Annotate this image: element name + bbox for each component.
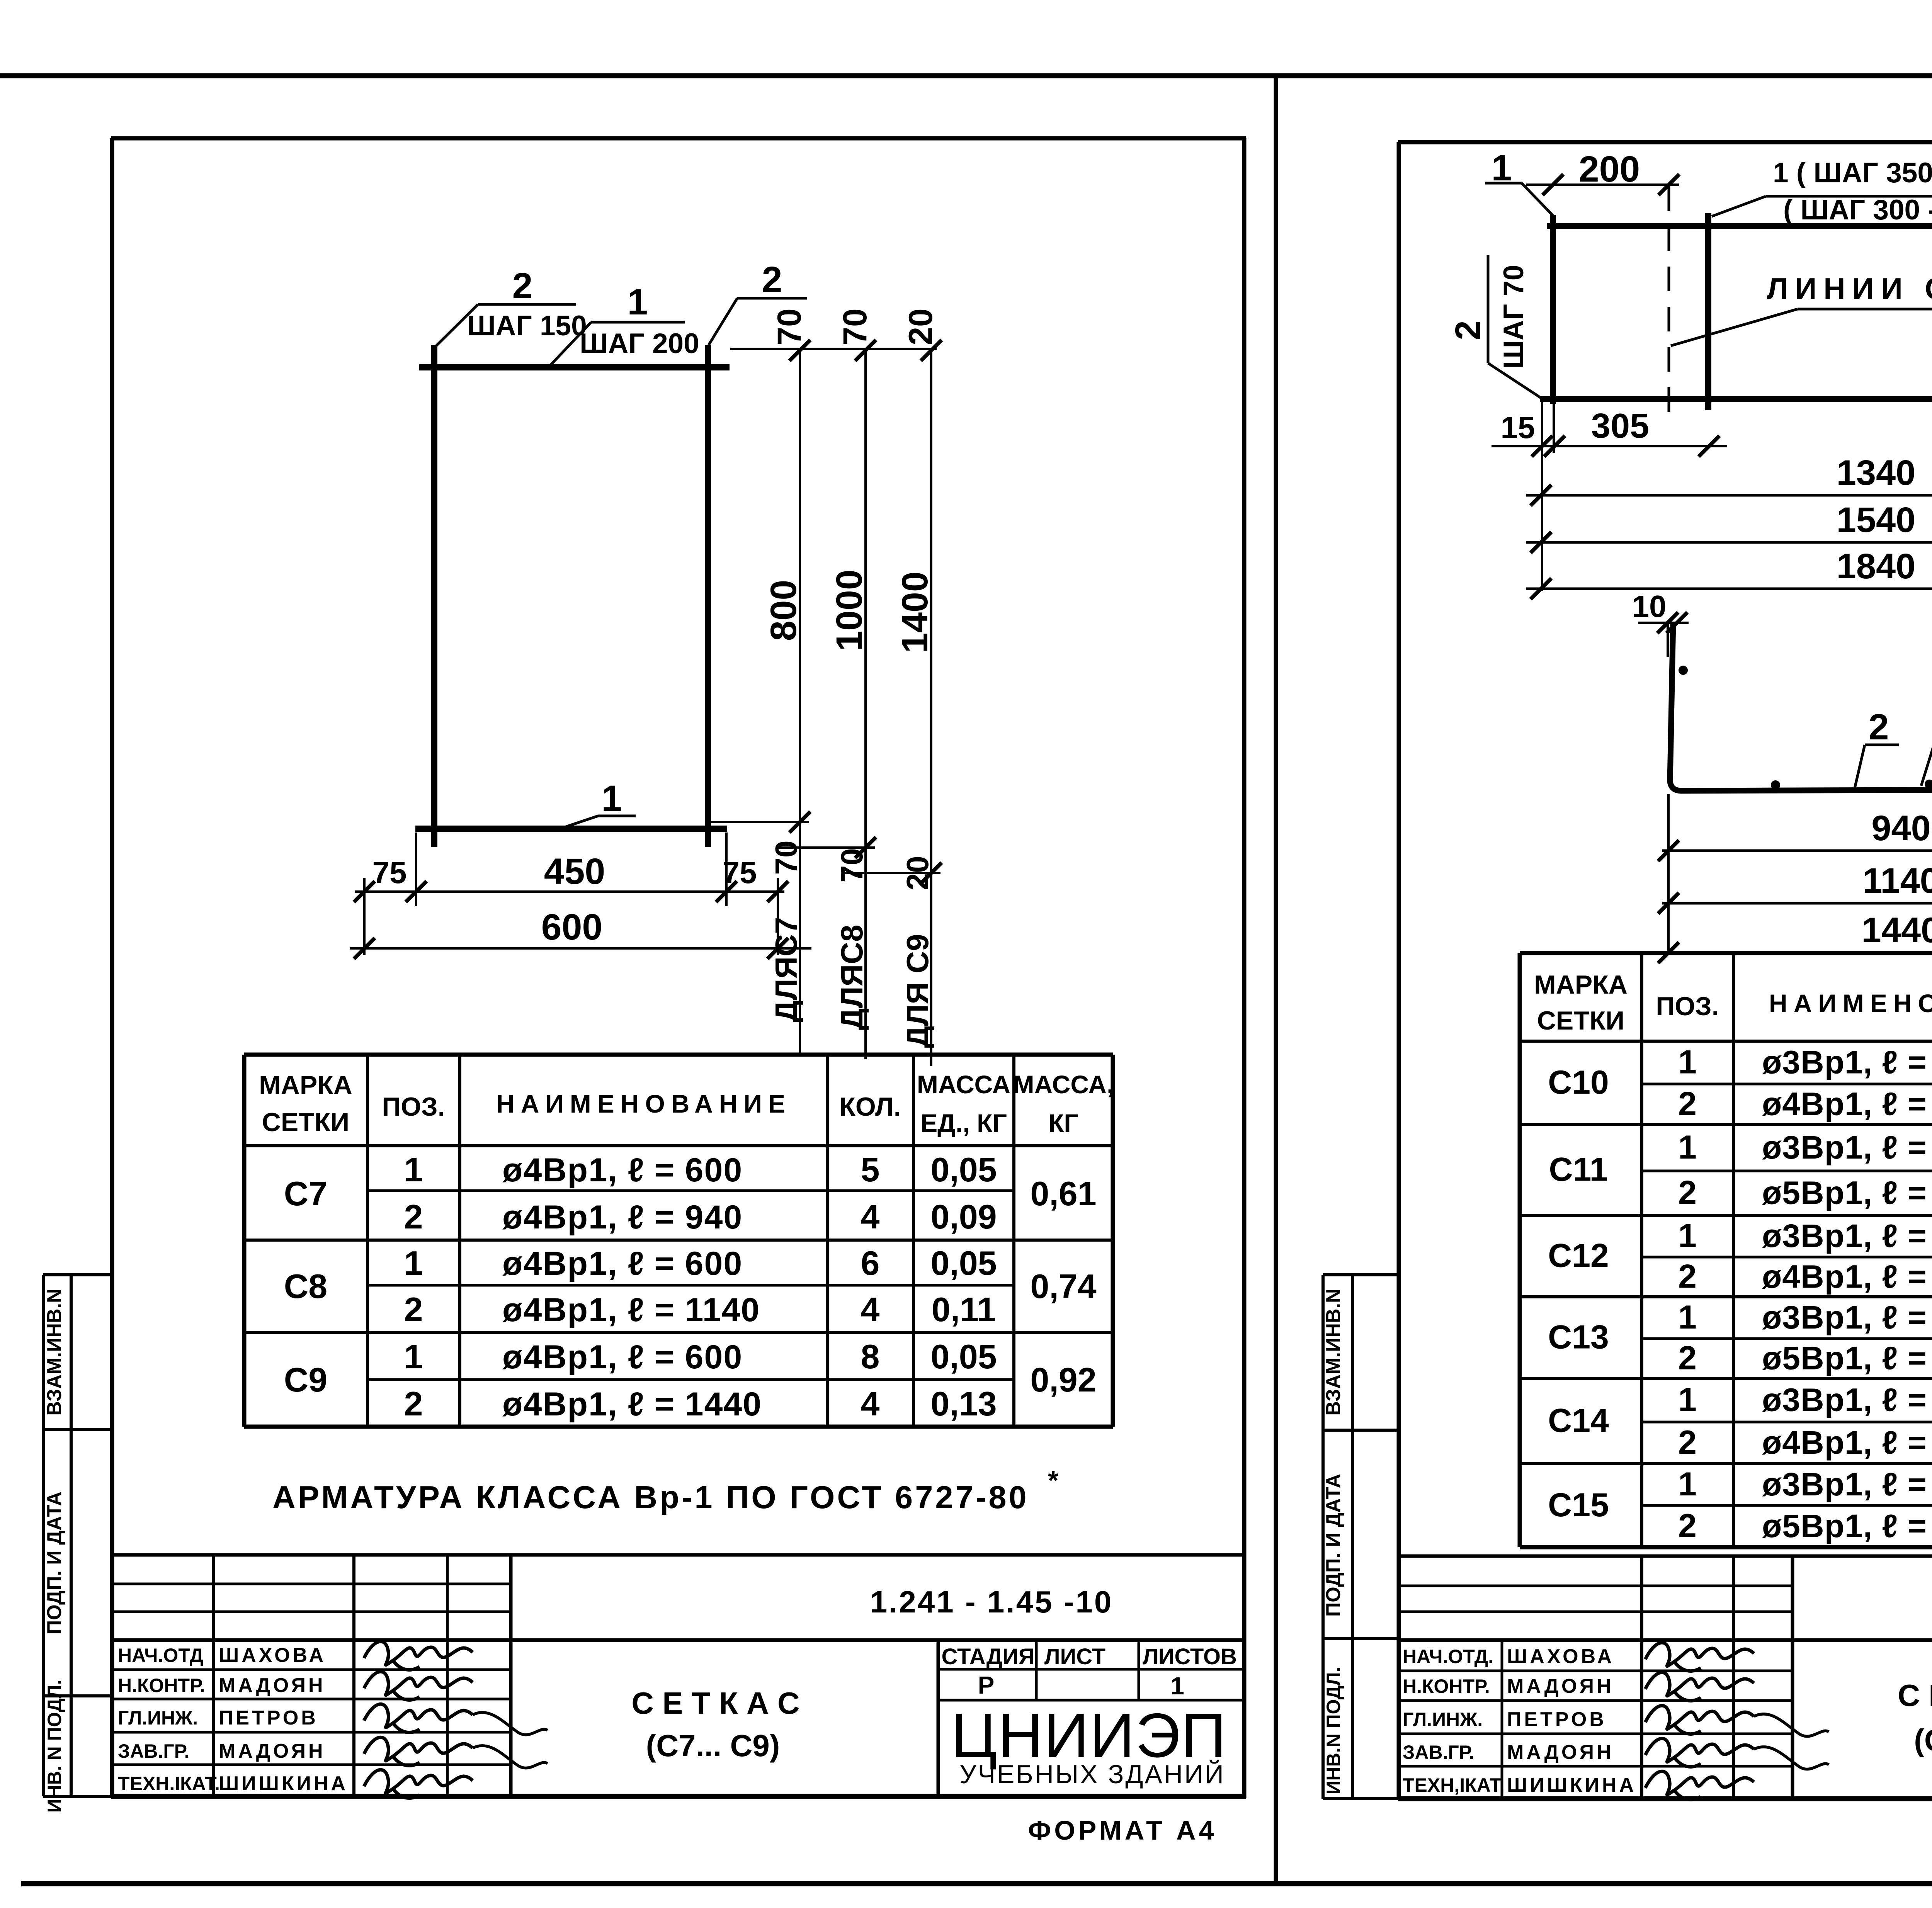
стадия box left: [937, 1640, 940, 1796]
svg-text:2: 2: [1678, 1086, 1697, 1123]
svg-text:0,92: 0,92: [1030, 1361, 1096, 1399]
svg-text:ø3Вр1, ℓ = 300: ø3Вр1, ℓ = 300: [1762, 1218, 1932, 1254]
right margin box ВЗАМ.ИНВ.N: [1321, 1275, 1325, 1799]
signature 2 left: [364, 1672, 473, 1700]
svg-text:2: 2: [404, 1290, 423, 1329]
svg-text:70: 70: [837, 308, 874, 345]
svg-text:С9: С9: [284, 1361, 328, 1399]
svg-text:ПОДП. И ДАТА: ПОДП. И ДАТА: [43, 1492, 66, 1634]
svg-text:0,05: 0,05: [930, 1244, 997, 1282]
svg-text:СЕТКИ: СЕТКИ: [262, 1108, 349, 1137]
right specification table С10-С15: [1520, 951, 1932, 955]
svg-text:4: 4: [861, 1385, 880, 1423]
signature 3 right: [1645, 1706, 1829, 1736]
top extension line: [730, 348, 937, 350]
svg-text:ø4Вр1, ℓ = 1840: ø4Вр1, ℓ = 1840: [1762, 1424, 1932, 1461]
svg-text:ø4Вр1, ℓ = 1340: ø4Вр1, ℓ = 1340: [1762, 1086, 1932, 1122]
signature 4 left: [364, 1737, 548, 1768]
svg-text:С12: С12: [1548, 1237, 1609, 1274]
svg-text:1: 1: [602, 778, 622, 819]
svg-text:4: 4: [861, 1290, 880, 1329]
svg-text:МАРКА: МАРКА: [1534, 970, 1628, 999]
svg-text:2: 2: [512, 265, 533, 306]
svg-text:С10: С10: [1548, 1064, 1609, 1101]
svg-text:1: 1: [1678, 1466, 1697, 1503]
extension verticals for 600 dim: [363, 878, 366, 955]
svg-text:ДЛЯС7: ДЛЯС7: [769, 917, 803, 1023]
ticks on top bar: [789, 340, 810, 361]
svg-text:2: 2: [1869, 707, 1889, 748]
svg-text:ДЛЯ С9: ДЛЯ С9: [900, 934, 935, 1048]
svg-text:70: 70: [769, 841, 803, 875]
top border line: [0, 73, 1932, 78]
dev wire B: [1705, 213, 1711, 410]
rotated 2 шаг 70: [1487, 255, 1490, 363]
svg-text:0,13: 0,13: [930, 1385, 997, 1423]
svg-text:1440: 1440: [1862, 911, 1932, 950]
svg-text:ø4Вр1, ℓ = 600: ø4Вр1, ℓ = 600: [502, 1152, 743, 1189]
svg-text:2: 2: [1448, 320, 1488, 340]
svg-text:МАССА,: МАССА,: [1013, 1070, 1114, 1099]
signature 5 left: [364, 1770, 473, 1798]
svg-text:СТАДИЯ: СТАДИЯ: [942, 1644, 1035, 1669]
dim row 1340: [1526, 494, 1932, 497]
svg-text:20: 20: [902, 308, 939, 345]
signature 2 right: [1645, 1672, 1754, 1701]
svg-text:ШАГ 150: ШАГ 150: [467, 310, 587, 342]
svg-text:ПОЗ.: ПОЗ.: [382, 1092, 445, 1121]
signature 1 left: [364, 1641, 473, 1670]
svg-text:1340: 1340: [1837, 453, 1916, 493]
dim vertical for 1400 / дляС9: [930, 349, 932, 1066]
svg-text:0,05: 0,05: [930, 1337, 997, 1376]
dev wire A: [1550, 215, 1556, 404]
svg-text:ШАГ 200: ШАГ 200: [580, 328, 699, 359]
mesh left wire: [431, 345, 437, 847]
signature 5 right: [1645, 1771, 1754, 1799]
svg-text:ПЕТРОВ: ПЕТРОВ: [219, 1707, 318, 1729]
svg-text:НАЧ.ОТД: НАЧ.ОТД: [118, 1645, 203, 1666]
left title block: [112, 1553, 1244, 1557]
svg-text:ФОРМАТ А4: ФОРМАТ А4: [1028, 1815, 1217, 1845]
svg-text:1: 1: [404, 1337, 423, 1376]
svg-text:ø4Вр1, ℓ = 1140: ø4Вр1, ℓ = 1140: [502, 1291, 760, 1329]
svg-text:С15: С15: [1548, 1487, 1609, 1524]
svg-text:Р: Р: [978, 1671, 995, 1699]
dim line 600: [350, 947, 811, 950]
svg-text:ШИШКИНА: ШИШКИНА: [1507, 1774, 1636, 1796]
svg-text:10: 10: [1632, 589, 1667, 624]
svg-text:ИНВ. N ПОДЛ.: ИНВ. N ПОДЛ.: [44, 1680, 65, 1813]
svg-text:1840: 1840: [1837, 547, 1916, 586]
svg-text:0,74: 0,74: [1030, 1267, 1096, 1305]
svg-text:2: 2: [1678, 1174, 1697, 1211]
svg-text:15: 15: [1501, 410, 1535, 445]
fold line 1 (dashed): [1668, 186, 1670, 416]
svg-text:МАДОЯН: МАДОЯН: [1507, 1741, 1614, 1764]
svg-text:ПОЗ.: ПОЗ.: [1656, 992, 1719, 1021]
svg-text:ТЕХН.IКАТ.: ТЕХН.IКАТ.: [118, 1773, 220, 1794]
svg-text:ВЗАМ.ИНВ.N: ВЗАМ.ИНВ.N: [43, 1288, 66, 1415]
svg-text:1400: 1400: [895, 571, 935, 653]
dim row 940: [1662, 850, 1932, 852]
svg-text:70: 70: [771, 308, 808, 345]
svg-text:С8: С8: [284, 1267, 328, 1305]
U-channel bent mesh section: [1670, 622, 1932, 791]
svg-text:МАДОЯН: МАДОЯН: [1507, 1675, 1614, 1697]
svg-text:ЕД., КГ: ЕД., КГ: [920, 1109, 1007, 1137]
svg-text:1 ( ШАГ 350 - ДЛЯ С10,С11): 1 ( ШАГ 350 - ДЛЯ С10,С11): [1773, 157, 1932, 189]
svg-text:0,05: 0,05: [930, 1150, 997, 1189]
svg-text:2: 2: [404, 1198, 423, 1236]
right title block: [1399, 1555, 1932, 1558]
svg-text:8: 8: [861, 1337, 880, 1376]
svg-text:305: 305: [1591, 407, 1649, 445]
svg-text:75: 75: [372, 855, 407, 890]
svg-text:МАДОЯН: МАДОЯН: [219, 1674, 326, 1697]
svg-text:ø5Вр1, ℓ = 1540: ø5Вр1, ℓ = 1540: [1762, 1340, 1932, 1376]
svg-text:2: 2: [1678, 1424, 1697, 1461]
svg-text:МАДОЯН: МАДОЯН: [219, 1740, 326, 1762]
svg-text:ø4Вр1, ℓ = 600: ø4Вр1, ℓ = 600: [502, 1339, 743, 1376]
svg-text:2: 2: [1678, 1507, 1697, 1544]
svg-text:ИНВ.N ПОДЛ.: ИНВ.N ПОДЛ.: [1323, 1667, 1344, 1795]
svg-text:ø4Вр1, ℓ = 1540: ø4Вр1, ℓ = 1540: [1762, 1259, 1932, 1295]
signature 3 left: [364, 1704, 548, 1735]
svg-text:ГЛ.ИНЖ.: ГЛ.ИНЖ.: [118, 1707, 198, 1729]
svg-text:(С7... С9): (С7... С9): [646, 1728, 780, 1763]
svg-text:ø4Вр1, ℓ = 940: ø4Вр1, ℓ = 940: [502, 1199, 743, 1236]
svg-text:940: 940: [1871, 809, 1931, 848]
svg-text:70: 70: [835, 848, 869, 883]
svg-text:1: 1: [404, 1150, 423, 1189]
svg-text:АРМАТУРА КЛАССА Вр-1 ПО ГО: АРМАТУРА КЛАССА Вр-1 ПО ГОСТ 6727-80: [272, 1479, 1029, 1515]
svg-text:ЛИНИИ СГИБА: ЛИНИИ СГИБА: [1767, 272, 1932, 306]
svg-text:800: 800: [763, 580, 804, 641]
left margin box ВЗАМ.ИНВ.N: [42, 1275, 45, 1796]
svg-text:С7: С7: [284, 1174, 328, 1213]
svg-text:С Е Т К А С: С Е Т К А С: [631, 1686, 800, 1720]
svg-text:5: 5: [861, 1150, 880, 1189]
svg-text:ø4Вр1, ℓ = 1440: ø4Вр1, ℓ = 1440: [502, 1386, 762, 1423]
svg-text:450: 450: [544, 851, 605, 892]
svg-text:1: 1: [628, 282, 648, 323]
svg-text:ЗАВ.ГР.: ЗАВ.ГР.: [1403, 1741, 1475, 1763]
svg-text:1: 1: [1678, 1299, 1697, 1336]
svg-text:НАИМЕНОВАНИЕ: НАИМЕНОВАНИЕ: [1769, 989, 1932, 1018]
svg-text:ШАГ 70: ШАГ 70: [1498, 265, 1529, 369]
dim vertical for 1000 / дляС8: [864, 349, 867, 1059]
svg-text:ø3Вр1, ℓ = 300: ø3Вр1, ℓ = 300: [1762, 1382, 1932, 1418]
svg-text:ø3Вр1, ℓ = 300: ø3Вр1, ℓ = 300: [1762, 1299, 1932, 1335]
svg-text:1: 1: [1678, 1129, 1697, 1166]
svg-text:2: 2: [1678, 1340, 1697, 1377]
left margin box ПОДП. И ДАТА: [43, 1694, 112, 1697]
svg-text:С13: С13: [1548, 1319, 1609, 1356]
svg-text:ø5Вр1, ℓ = 1840: ø5Вр1, ℓ = 1840: [1762, 1508, 1932, 1544]
dim vertical for 800 / дляС7: [799, 349, 801, 1053]
mesh top bar (wire 2): [419, 364, 730, 370]
mesh bottom bar (wire 1): [415, 826, 727, 832]
svg-text:ЛИСТ: ЛИСТ: [1044, 1644, 1105, 1669]
svg-text:ДЛЯС8: ДЛЯС8: [835, 925, 869, 1030]
svg-text:КОЛ.: КОЛ.: [839, 1092, 901, 1121]
svg-text:( ШАГ 300 - ДЛЯ С12...С15): ( ШАГ 300 - ДЛЯ С12...С15): [1783, 194, 1932, 226]
svg-text:С14: С14: [1548, 1402, 1609, 1439]
svg-text:С Е Т К А С: С Е Т К А С: [1898, 1678, 1932, 1713]
svg-text:*: *: [1048, 1465, 1059, 1495]
svg-text:0,61: 0,61: [1030, 1174, 1096, 1213]
svg-text:ø3Вр1, ℓ = 300: ø3Вр1, ℓ = 300: [1762, 1044, 1932, 1081]
dim row 1840: [1526, 588, 1932, 590]
svg-text:МАССА: МАССА: [917, 1070, 1010, 1099]
svg-text:1540: 1540: [1837, 500, 1916, 540]
svg-text:20: 20: [900, 856, 935, 890]
signature 4 right: [1645, 1738, 1829, 1769]
svg-text:Н.КОНТР.: Н.КОНТР.: [118, 1675, 205, 1696]
svg-text:ЛИСТОВ: ЛИСТОВ: [1143, 1644, 1237, 1669]
svg-text:6: 6: [861, 1244, 880, 1282]
svg-text:ø3Вр1, ℓ = 300: ø3Вр1, ℓ = 300: [1762, 1129, 1932, 1166]
dev top bar: [1547, 223, 1932, 229]
svg-text:МАРКА: МАРКА: [259, 1070, 352, 1100]
left specification table С7-С9: [244, 1053, 1113, 1057]
svg-text:ВЗАМ.ИНВ.N: ВЗАМ.ИНВ.N: [1322, 1288, 1345, 1415]
svg-text:ШАХОВА: ШАХОВА: [1507, 1645, 1614, 1668]
svg-text:ø3Вр1, ℓ = 300: ø3Вр1, ℓ = 300: [1762, 1466, 1932, 1502]
svg-text:1: 1: [1170, 1672, 1184, 1700]
right margin box ПОДП. И ДАТА: [1323, 1637, 1399, 1640]
svg-text:НАИМЕНОВАНИЕ: НАИМЕНОВАНИЕ: [496, 1089, 791, 1118]
left sheet frame: [111, 136, 1246, 141]
svg-text:1: 1: [1678, 1044, 1697, 1081]
svg-text:1: 1: [1678, 1381, 1697, 1419]
svg-text:ПЕТРОВ: ПЕТРОВ: [1507, 1708, 1607, 1731]
svg-text:ШИШКИНА: ШИШКИНА: [219, 1772, 348, 1795]
svg-text:СЕТКИ: СЕТКИ: [1537, 1006, 1624, 1035]
svg-text:ПОДП. И ДАТА: ПОДП. И ДАТА: [1322, 1474, 1345, 1617]
signature 1 right: [1645, 1643, 1754, 1671]
svg-text:ГЛ.ИНЖ.: ГЛ.ИНЖ.: [1403, 1709, 1483, 1730]
bottom border line: [21, 1881, 1932, 1886]
svg-text:1: 1: [1678, 1217, 1697, 1254]
svg-text:2: 2: [762, 259, 782, 300]
dim row 1540: [1526, 541, 1932, 544]
svg-text:1000: 1000: [829, 569, 870, 651]
svg-text:УЧЕБНЫХ ЗДАНИЙ: УЧЕБНЫХ ЗДАНИЙ: [959, 1759, 1225, 1789]
wire dots: [1679, 666, 1688, 675]
svg-text:НАЧ.ОТД.: НАЧ.ОТД.: [1403, 1646, 1493, 1667]
svg-text:КГ: КГ: [1048, 1109, 1078, 1137]
dim line 75 450 75: [355, 890, 784, 893]
svg-text:600: 600: [541, 907, 603, 948]
svg-text:4: 4: [861, 1198, 880, 1236]
sheet divider line: [1274, 76, 1278, 1884]
svg-text:0,11: 0,11: [932, 1290, 996, 1329]
svg-text:ТЕХН,IКАТ.: ТЕХН,IКАТ.: [1403, 1774, 1505, 1796]
svg-text:С11: С11: [1549, 1151, 1608, 1188]
dev bottom bar: [1540, 396, 1932, 402]
svg-text:1.241 - 1.45 -10: 1.241 - 1.45 -10: [870, 1585, 1113, 1619]
svg-text:2: 2: [404, 1385, 423, 1423]
right sheet frame: [1398, 140, 1932, 144]
svg-text:ø4Вр1, ℓ = 600: ø4Вр1, ℓ = 600: [502, 1245, 743, 1282]
svg-text:0,09: 0,09: [930, 1198, 997, 1236]
step line для С7: [709, 821, 809, 823]
svg-text:1: 1: [404, 1244, 423, 1282]
step line для С9: [841, 872, 940, 874]
mesh right wire: [705, 345, 711, 847]
svg-text:Н.КОНТР.: Н.КОНТР.: [1403, 1675, 1490, 1697]
svg-text:ЗАВ.ГР.: ЗАВ.ГР.: [118, 1740, 190, 1762]
dim row 1140: [1662, 902, 1932, 905]
svg-text:(С10...С15): (С10...С15): [1914, 1723, 1932, 1757]
svg-text:ШАХОВА: ШАХОВА: [219, 1644, 326, 1667]
dim row 1440: [1662, 951, 1932, 954]
svg-text:ø5Вр1, ℓ = 1340: ø5Вр1, ℓ = 1340: [1762, 1175, 1932, 1211]
step line для С8: [776, 846, 875, 849]
U ext verticals: [1667, 794, 1670, 954]
svg-text:2: 2: [1678, 1258, 1697, 1295]
svg-text:1140: 1140: [1862, 861, 1932, 900]
